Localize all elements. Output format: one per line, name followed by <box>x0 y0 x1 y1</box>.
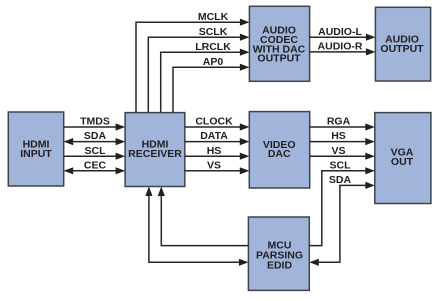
svg-text:TMDS: TMDS <box>80 116 110 128</box>
wire AP0 <box>173 56 249 113</box>
wire SCL net (mcu-receiver and mcu-vga) <box>158 159 375 245</box>
svg-text:SDA: SDA <box>329 174 352 186</box>
wire AUDIO-L <box>310 26 376 41</box>
svg-text:HDMIINPUT: HDMIINPUT <box>20 139 52 160</box>
svg-text:DATA: DATA <box>200 130 228 142</box>
svg-text:RGA: RGA <box>327 116 351 128</box>
svg-text:MCLK: MCLK <box>198 11 229 23</box>
svg-text:AP0: AP0 <box>203 56 224 68</box>
block AUDIO OUTPUT <box>375 7 430 81</box>
svg-text:CEC: CEC <box>84 159 107 171</box>
wire HS (dac-vga) <box>310 130 375 145</box>
svg-text:HS: HS <box>207 145 222 157</box>
block VIDEO DAC <box>249 112 309 188</box>
wire LRCLK <box>161 41 250 113</box>
wire TMDS <box>64 116 125 131</box>
wire HS (receiver-dac) <box>185 145 250 160</box>
svg-text:HS: HS <box>331 130 346 142</box>
svg-text:AUDIO-R: AUDIO-R <box>318 41 363 53</box>
svg-text:LRCLK: LRCLK <box>195 41 231 53</box>
wire SDA net (mcu-receiver and mcu-vga) <box>145 174 374 266</box>
svg-text:CLOCK: CLOCK <box>195 116 233 128</box>
wire CEC (bidirectional) <box>64 159 125 174</box>
wire AUDIO-R <box>310 41 376 56</box>
svg-text:SCL: SCL <box>85 145 107 157</box>
wire CLOCK <box>185 116 250 131</box>
wire DATA <box>185 130 250 145</box>
svg-text:SDA: SDA <box>84 130 107 142</box>
svg-text:SCL: SCL <box>330 159 352 171</box>
block MCU PARSING EDID <box>248 217 309 290</box>
svg-text:SCLK: SCLK <box>199 26 228 38</box>
svg-text:VS: VS <box>331 145 345 157</box>
wire MCLK <box>136 11 249 113</box>
wire VS (dac-vga) <box>310 145 375 160</box>
wire SCL (input-receiver) <box>64 145 125 160</box>
svg-text:AUDIO-L: AUDIO-L <box>318 26 362 38</box>
svg-text:AUDIOOUTPUT: AUDIOOUTPUT <box>380 34 424 55</box>
svg-text:VGAOUT: VGAOUT <box>391 146 414 168</box>
wire VS (receiver-dac) <box>185 159 250 174</box>
block VGA OUT <box>375 113 431 204</box>
wire SDA (input-receiver, bidirectional) <box>64 130 125 145</box>
block HDMI INPUT <box>8 112 63 186</box>
wire RGA <box>310 116 375 131</box>
block AUDIO CODEC WITH DAC OUTPUT <box>249 6 309 81</box>
svg-text:VS: VS <box>207 159 221 171</box>
block HDMI RECEIVER <box>125 113 185 187</box>
wire SCLK <box>148 26 249 113</box>
